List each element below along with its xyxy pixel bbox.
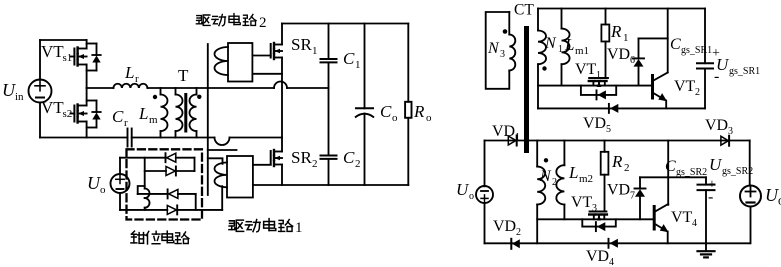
svg-text:N: N — [539, 168, 552, 185]
svg-text:R: R — [611, 152, 623, 171]
svg-text:U: U — [87, 173, 101, 193]
diode VD5 — [609, 104, 618, 113]
main wire SR1 driver — [538, 85, 653, 87]
Ugs_SR1 branch with cap — [697, 9, 713, 109]
svg-text:3: 3 — [500, 49, 505, 60]
VT2 label — [674, 78, 700, 98]
top rail — [282, 23, 408, 25]
VD6 label — [607, 46, 635, 66]
VD7 label — [607, 182, 635, 202]
Uin source — [29, 40, 52, 138]
clamp V1 vertical with hops — [145, 158, 150, 210]
svg-text:VT: VT — [674, 78, 696, 95]
svg-text:r: r — [124, 117, 128, 129]
svg-text:VD: VD — [607, 46, 630, 63]
Lm1 winding — [562, 9, 570, 86]
wire to Cgs_SR2 — [640, 176, 706, 178]
svg-text:2: 2 — [259, 15, 267, 31]
svg-text:gs_SR2: gs_SR2 — [722, 166, 753, 177]
VD5 label — [583, 115, 611, 135]
bottom rail — [253, 184, 408, 186]
N2 dot — [544, 158, 548, 162]
BJT VT2 — [653, 73, 668, 109]
svg-text:T: T — [178, 66, 189, 85]
transformer T secondary — [190, 88, 197, 138]
svg-text:U: U — [456, 180, 470, 199]
Lm1 label — [564, 35, 589, 57]
N3 winding loop — [486, 12, 516, 89]
svg-text:-: - — [708, 189, 713, 206]
VD2 label — [493, 218, 521, 238]
secondary dot — [197, 95, 201, 99]
svg-text:CT: CT — [514, 2, 534, 19]
bottom rail — [485, 242, 750, 244]
svg-text:2: 2 — [355, 158, 361, 170]
Lm dot — [153, 95, 157, 99]
Ro label — [413, 102, 432, 124]
svg-text:gs_SR1: gs_SR1 — [681, 45, 712, 56]
svg-text:VD: VD — [492, 123, 515, 140]
clamp row4 wire — [120, 209, 167, 211]
transformer core — [184, 93, 187, 133]
N2 label — [539, 168, 557, 188]
svg-text:VD: VD — [607, 182, 630, 199]
diode VD4 — [609, 239, 618, 248]
svg-text:N: N — [544, 35, 557, 52]
drive circuit 1 block — [208, 156, 253, 210]
svg-text:C: C — [380, 102, 392, 121]
main wire SR2 driver — [537, 218, 654, 220]
jog to row3 — [138, 186, 145, 194]
svg-text:7: 7 — [630, 191, 635, 202]
wire hop over SR midpoint — [274, 82, 287, 89]
svg-text:C: C — [343, 148, 355, 167]
svg-text:L: L — [564, 35, 574, 54]
svg-text:C: C — [665, 158, 676, 175]
capacitor Co — [356, 24, 373, 186]
resistor Ro — [405, 24, 411, 186]
VD6 branch — [633, 9, 668, 86]
svg-text:VT: VT — [575, 61, 597, 78]
svg-text:gs_SR2: gs_SR2 — [676, 167, 707, 178]
svg-text:U: U — [2, 80, 16, 100]
top wire — [485, 140, 750, 142]
transistor VTs2 — [71, 88, 87, 138]
svg-text:6: 6 — [630, 55, 635, 66]
svg-text:2: 2 — [312, 158, 318, 170]
Lm label — [138, 104, 158, 126]
SR1 label — [291, 35, 318, 57]
svg-text:gs_SR1: gs_SR1 — [729, 66, 760, 77]
svg-text:L: L — [568, 163, 578, 182]
svg-text:C: C — [343, 49, 355, 68]
svg-text:U: U — [716, 55, 730, 74]
VD1 label — [492, 123, 520, 143]
svg-text:U: U — [709, 155, 723, 174]
BJT VT4 — [654, 141, 668, 244]
right join rows3-4 — [195, 194, 197, 210]
drive1 wires to SR2 — [253, 164, 271, 166]
label: drive circuit 2 — [196, 14, 266, 31]
svg-text:VD: VD — [586, 248, 609, 265]
transformer T primary — [176, 88, 183, 138]
svg-text:3: 3 — [592, 203, 597, 214]
N1 label — [544, 35, 563, 55]
svg-text:o: o — [100, 184, 106, 196]
svg-text:1: 1 — [355, 59, 361, 71]
svg-text:s2: s2 — [63, 108, 73, 120]
resistor R1 — [601, 9, 609, 79]
SR2 mosfet — [271, 138, 282, 186]
N3 label — [487, 40, 505, 60]
VT4 label — [671, 209, 697, 229]
stub wire at y150 — [208, 149, 237, 151]
svg-text:in: in — [15, 91, 24, 103]
VT1 mosfet (horizontal) — [589, 78, 608, 87]
svg-text:VT: VT — [571, 194, 593, 211]
VTs2 body diode — [87, 101, 101, 128]
N3 dot — [503, 29, 508, 34]
svg-text:5: 5 — [606, 124, 611, 135]
UG label — [765, 185, 781, 208]
VT3 body diode loop — [582, 219, 616, 231]
diode VD2 — [511, 239, 520, 249]
svg-text:2: 2 — [624, 162, 630, 174]
Uin label — [2, 80, 24, 103]
drive circuit 2 block — [215, 43, 253, 82]
VD7 branch — [635, 177, 646, 219]
svg-text:1: 1 — [312, 45, 318, 57]
diode D3 — [168, 189, 196, 198]
svg-text:o: o — [469, 191, 474, 202]
svg-text:VT: VT — [41, 42, 64, 61]
drive2 wires to SR1 — [252, 55, 270, 57]
VT3 mosfet (horizontal) — [589, 212, 607, 221]
Cgs_SR2 cap branch — [698, 177, 715, 243]
UG source — [740, 141, 761, 244]
SR1 mosfet — [271, 24, 282, 138]
Ugs_SR1 label — [716, 55, 760, 77]
inductor Lm — [161, 88, 168, 138]
svg-text:1: 1 — [558, 44, 563, 55]
clamp row3 wire — [138, 193, 168, 195]
svg-text:SR: SR — [291, 35, 312, 54]
diode VD3 — [721, 136, 729, 146]
diode D1 — [166, 153, 195, 162]
label: clamp circuit — [131, 231, 189, 244]
VT1 body diode loop — [581, 86, 616, 100]
svg-text:1: 1 — [596, 70, 601, 81]
Lr label — [124, 63, 139, 85]
VD3 label (upper) — [705, 117, 733, 137]
svg-text:4: 4 — [692, 218, 697, 229]
svg-text:VD: VD — [705, 117, 728, 134]
svg-text:1: 1 — [623, 32, 629, 44]
svg-text:2: 2 — [695, 87, 700, 98]
left rail with N1 winding — [538, 9, 546, 109]
svg-text:1: 1 — [295, 220, 303, 236]
svg-text:SR: SR — [291, 148, 312, 167]
VTs1 label — [41, 42, 72, 64]
top rail SR1 driver — [538, 8, 705, 10]
VT1 label — [575, 61, 601, 81]
right join rows1-2 — [194, 158, 196, 171]
wire top of bridge — [40, 39, 87, 41]
SR2 label — [291, 148, 318, 170]
svg-text:N: N — [487, 40, 500, 57]
Uo source (right) — [476, 141, 493, 244]
N1 dot — [542, 66, 546, 70]
svg-text:VD: VD — [583, 115, 606, 132]
Lm2 label — [568, 163, 593, 185]
svg-text:VT: VT — [41, 98, 64, 117]
svg-text:U: U — [765, 185, 779, 205]
C1 label — [343, 49, 361, 71]
VTs2 label — [41, 98, 72, 120]
label: drive circuit 1 — [229, 219, 303, 236]
Co label — [380, 102, 398, 124]
svg-text:R: R — [413, 102, 425, 121]
capacitor C2 — [321, 156, 337, 186]
diode D2 — [166, 167, 195, 176]
Ugs_SR2 label — [709, 155, 753, 177]
svg-text:C: C — [670, 36, 681, 53]
transistor VTs1 — [71, 40, 87, 88]
clamp dashed box — [127, 149, 203, 219]
rail to SR midpoint — [230, 137, 283, 139]
rail hop — [215, 138, 230, 146]
left rail with N2 winding — [537, 141, 545, 244]
svg-text:R: R — [610, 22, 622, 41]
capacitor C1 — [321, 24, 337, 156]
VD4 label — [586, 248, 614, 267]
resistor R2 — [601, 141, 609, 212]
clamp row1 wire — [120, 157, 166, 159]
Uo label (right) — [456, 180, 474, 202]
svg-text:o: o — [392, 112, 398, 124]
bottom rail with Cr — [40, 129, 215, 147]
R1 label — [610, 22, 629, 44]
VT3 label — [571, 194, 597, 214]
VTs1 body diode — [87, 44, 101, 71]
node A wire to C1/C2 midpoint — [287, 87, 329, 89]
ground — [698, 243, 715, 257]
bottom rail SR1 driver — [538, 107, 705, 109]
inductor Lr — [87, 84, 274, 88]
Cr label — [112, 107, 128, 129]
svg-text:m: m — [149, 114, 158, 126]
CT primary bus — [207, 44, 209, 195]
svg-text:VT: VT — [671, 209, 693, 226]
C2 label — [343, 148, 361, 170]
Cgs_SR1 label — [670, 36, 720, 85]
svg-text:4: 4 — [609, 257, 614, 267]
clamp row2 wire — [145, 170, 166, 172]
diode D4 — [167, 205, 222, 214]
svg-text:r: r — [135, 73, 139, 85]
Cgs_SR2 label — [665, 158, 716, 206]
svg-text:2: 2 — [516, 227, 521, 238]
svg-text:VD: VD — [493, 218, 516, 235]
svg-text:o: o — [426, 112, 432, 124]
svg-text:L: L — [138, 104, 148, 123]
svg-text:m2: m2 — [579, 173, 593, 185]
Uo label — [87, 173, 106, 196]
svg-text:1: 1 — [515, 132, 520, 143]
CT core bar — [524, 26, 529, 153]
diode VD1 — [508, 136, 516, 146]
svg-text:C: C — [112, 107, 124, 126]
Lm2 winding — [556, 141, 564, 220]
Uo source — [111, 158, 130, 210]
svg-text:s1: s1 — [63, 52, 73, 64]
R2 label — [611, 152, 630, 174]
svg-text:L: L — [124, 63, 134, 82]
svg-text:m1: m1 — [575, 45, 589, 57]
